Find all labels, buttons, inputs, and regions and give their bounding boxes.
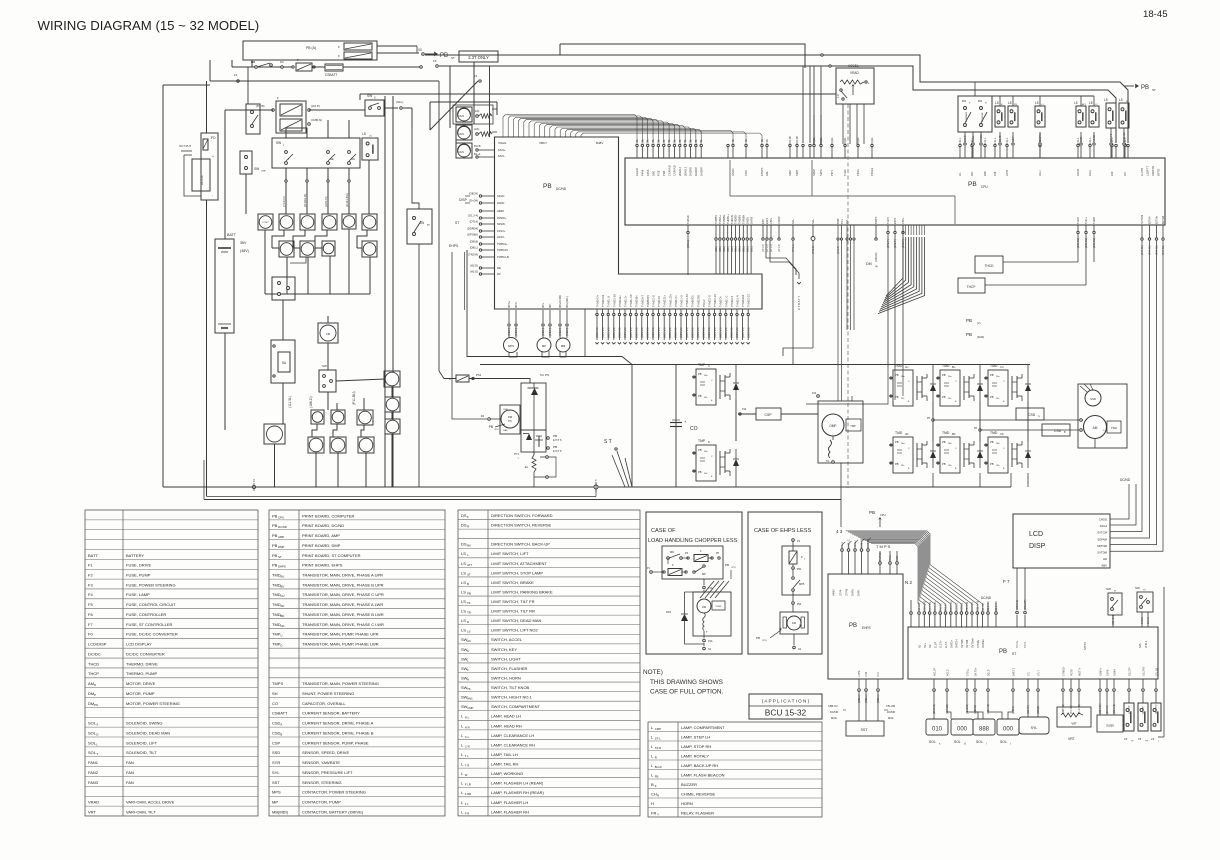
wire disp feeds — [465, 195, 470, 197]
svg-text:1311.Q2: 1311.Q2 — [1122, 132, 1126, 142]
svg-text:DS: DS — [461, 542, 467, 547]
svg-text:DC/DC CONVERTER: DC/DC CONVERTER — [126, 651, 165, 656]
svg-text:(O1D.V1): (O1D.V1) — [680, 327, 683, 338]
svg-text:F: F — [338, 54, 340, 58]
svg-text:PB: PB — [942, 373, 946, 377]
svg-text:TRANSISTOR, MAIN, PUMP, PHASE: TRANSISTOR, MAIN, PUMP, PHASE UPR — [302, 632, 379, 637]
current sensor CSD B — [1042, 424, 1070, 436]
wire ls extra drop — [1110, 128, 1112, 132]
svg-text:F: F — [801, 555, 803, 559]
svg-text:(198.8M): (198.8M) — [875, 252, 878, 262]
2.3T ONLY box — [459, 51, 498, 62]
svg-text:5A.T5+: 5A.T5+ — [975, 667, 978, 676]
svg-text:(DTL4): (DTL4) — [470, 220, 478, 224]
svg-text:PY1: PY1 — [514, 453, 519, 456]
svg-text:DHDF8: DHDF8 — [689, 167, 693, 176]
svg-text:AC: AC — [467, 639, 471, 643]
cpu top pin stubs group C — [789, 147, 791, 158]
svg-text:SENSOR, PRESSURE LIFT: SENSOR, PRESSURE LIFT — [302, 770, 353, 775]
svg-text:THERMO, PUMP: THERMO, PUMP — [126, 671, 157, 676]
svg-text:TMDA+: TMDA+ — [718, 215, 722, 224]
svg-text:(1T1.P): (1T1.P) — [886, 239, 890, 248]
svg-text:Y: Y — [657, 812, 659, 816]
svg-text:131.L: 131.L — [1088, 137, 1092, 144]
svg-text:LAMP, FLASH BEACON: LAMP, FLASH BEACON — [681, 772, 725, 777]
svg-text:(O8L): (O8L) — [739, 246, 742, 252]
svg-text:LIMIT SWITCH, ATTACHMENT: LIMIT SWITCH, ATTACHMENT — [491, 561, 547, 566]
svg-text:(111.5L): (111.5L) — [288, 396, 292, 408]
svg-text:H L: H L — [465, 716, 470, 720]
svg-text:L9L.I: L9L.I — [1038, 170, 1042, 176]
yaw sensor SYR — [1097, 715, 1123, 732]
svg-text:TR: TR — [1145, 741, 1148, 743]
svg-text:DC/ND: DC/ND — [278, 525, 287, 529]
wire phase B — [979, 365, 981, 375]
svg-text:(O1D.V1): (O1D.V1) — [725, 327, 728, 338]
svg-text:F: F — [467, 515, 469, 519]
svg-text:MOTOR, POWER STEERING: MOTOR, POWER STEERING — [126, 701, 180, 706]
svg-text:BATT: BATT — [88, 553, 98, 558]
svg-text:THIS DRAWING SHOWS: THIS DRAWING SHOWS — [650, 679, 723, 686]
fan FAN2 — [456, 125, 472, 140]
svg-text:EHPS: EHPS — [449, 244, 459, 248]
svg-text:TMMB8P1: TMMB8P1 — [647, 295, 650, 307]
svg-text:PRINT BOARD, AMP: PRINT BOARD, AMP — [302, 533, 340, 538]
svg-text:PB: PB — [990, 462, 994, 466]
current sensor CSD A — [1016, 408, 1044, 420]
svg-text:FAN: FAN — [126, 760, 134, 765]
svg-text:DH-: DH- — [704, 473, 708, 475]
svg-text:CMD: CMD — [503, 409, 508, 411]
svg-text:SW: SW — [1106, 587, 1111, 591]
wire pins amp — [846, 225, 848, 238]
svg-text:DC/ND: DC/ND — [830, 710, 838, 714]
svg-text:L5: L5 — [1151, 737, 1155, 741]
svg-text:SOLENOID, SWING: SOLENOID, SWING — [126, 721, 162, 726]
wire ehps pin risers — [842, 542, 845, 549]
vari-ohm VRT — [1057, 707, 1091, 727]
svg-text:FORWARD: FORWARD — [965, 111, 968, 122]
svg-text:LS: LS — [461, 580, 466, 585]
svg-text:S1L2FF: S1L2FF — [1129, 667, 1132, 676]
svg-text:DF8.Q1: DF8.Q1 — [971, 602, 974, 611]
svg-text:BMP: BMP — [836, 218, 840, 224]
svg-text:SV-: SV- — [929, 644, 932, 648]
svg-text:AGL2P: AGL2P — [934, 668, 937, 676]
svg-text:36V: 36V — [240, 241, 247, 245]
svg-text:THMDCD4: THMDCD4 — [602, 294, 605, 307]
svg-text:P1A: P1A — [708, 640, 713, 643]
fuse F8 ps — [456, 375, 469, 382]
svg-text:THCP: THCP — [1076, 217, 1080, 224]
svg-text:V4MY: V4MY — [833, 589, 836, 596]
svg-text:ST: ST — [455, 221, 459, 225]
svg-text:B: B — [280, 732, 282, 736]
svg-text:(P11.BU): (P11.BU) — [352, 391, 356, 405]
svg-text:H1SV-: H1SV- — [497, 235, 505, 239]
legend table 4 application lamps — [648, 722, 822, 817]
cpu top pins group E to switches — [959, 147, 961, 158]
print board PB DC/ND — [495, 137, 763, 309]
svg-text:TMD: TMD — [990, 431, 998, 435]
svg-text:SDTNM: SDTNM — [1097, 544, 1108, 548]
svg-text:R: R — [657, 793, 659, 797]
svg-text:LS: LS — [461, 570, 466, 575]
svg-text:DIRECTION SWITCH, REVERSE: DIRECTION SWITCH, REVERSE — [491, 523, 552, 528]
svg-text:TMP: TMP — [698, 363, 706, 367]
svg-text:MGT7+: MGT7+ — [1079, 667, 1082, 676]
svg-text:LIMIT SWITCH, TILT RR: LIMIT SWITCH, TILT RR — [491, 609, 535, 614]
svg-text:D99: D99 — [983, 171, 987, 176]
horn H — [264, 424, 285, 444]
svg-text:CASE OF EHPS LESS: CASE OF EHPS LESS — [754, 528, 811, 534]
svg-text:BU: BU — [467, 544, 471, 548]
svg-text:L9AT1: L9AT1 — [1076, 168, 1080, 176]
svg-text:E5P: E5P — [761, 219, 765, 224]
svg-text:(O1D.V1): (O1D.V1) — [596, 327, 599, 338]
svg-text:FAN+: FAN+ — [498, 148, 506, 152]
svg-text:SVTMB: SVTMB — [961, 639, 964, 648]
svg-text:F1: F1 — [474, 74, 478, 78]
application box BCU 15-32 — [749, 694, 822, 719]
svg-text:ST: ST — [451, 56, 455, 60]
svg-text:LAMP, FLASHER RH (REAR): LAMP, FLASHER RH (REAR) — [491, 790, 544, 795]
svg-text:5A.LN: 5A.LN — [1147, 617, 1150, 624]
svg-text:M32+: M32+ — [831, 716, 838, 720]
svg-text:(O1D.V1): (O1D.V1) — [708, 327, 711, 338]
svg-text:LS: LS — [461, 628, 466, 633]
svg-text:LS: LS — [461, 618, 466, 623]
limit switch LS L bottom — [1151, 703, 1161, 731]
svg-text:L2DFTT: L2DFTT — [1146, 166, 1150, 176]
svg-text:BU: BU — [280, 584, 284, 588]
pump motor DM S chopper — [693, 592, 731, 636]
svg-text:N2L: N2L — [811, 219, 815, 224]
svg-text:(P41.L): (P41.L) — [792, 244, 795, 252]
svg-text:PB: PB — [698, 470, 702, 474]
svg-text:C5B.CN: C5B.CN — [828, 704, 838, 708]
svg-text:C5P+: C5P+ — [769, 217, 773, 224]
svg-text:P1: P1 — [797, 539, 801, 543]
wire am bottom — [1094, 438, 1096, 448]
svg-text:ST: ST — [467, 572, 471, 576]
speed sensor SSD and drive motor AM D — [1078, 384, 1127, 448]
svg-text:C'D9: C'D9 — [744, 170, 748, 176]
svg-text:(11.5-Y1): (11.5-Y1) — [995, 601, 998, 611]
svg-text:L9-: L9- — [958, 172, 962, 176]
svg-text:E H P S: E H P S — [553, 439, 562, 442]
svg-text:EMR+: EMR+ — [852, 588, 855, 596]
svg-text:PS1: PS1 — [476, 373, 482, 377]
contactor MPS ehps less — [792, 577, 795, 580]
svg-text:(181.L): (181.L) — [686, 240, 690, 248]
svg-text:D: D — [280, 644, 282, 648]
svg-text:44.311: 44.311 — [979, 134, 983, 142]
lamp L HL — [279, 214, 294, 230]
svg-text:F1: F1 — [234, 73, 238, 77]
svg-text:(Y1K.D): (Y1K.D) — [282, 196, 286, 207]
svg-text:ACCEL: ACCEL — [848, 64, 859, 68]
svg-text:(D+D4): (D+D4) — [469, 199, 478, 203]
svg-text:AMP: AMP — [278, 535, 284, 539]
svg-text:D2SW+: D2SW+ — [497, 216, 507, 220]
svg-text:F4N5: F4N5 — [646, 169, 650, 176]
limit switch LS AT1 — [1076, 106, 1086, 127]
limit switch LS PB — [1008, 106, 1018, 127]
svg-text:CHIME, REVERSE: CHIME, REVERSE — [681, 791, 716, 796]
svg-text:PB: PB — [272, 523, 278, 528]
svg-text:DH-: DH- — [996, 465, 1000, 467]
svg-text:P14: P14 — [812, 392, 817, 395]
svg-text:(H2.D): (H2.D) — [470, 264, 478, 268]
limit switch LS LI — [1035, 106, 1045, 127]
svg-text:N 2: N 2 — [905, 580, 913, 585]
svg-text:SMT2+: SMT2+ — [950, 639, 953, 648]
svg-text:O8L: O8L — [640, 139, 644, 144]
svg-text:ST: ST — [1012, 652, 1016, 656]
svg-text:SH: SH — [272, 691, 278, 696]
svg-text:THMDD-2D: THMDD-2D — [748, 294, 751, 307]
svg-text:MOTOR, PUMP: MOTOR, PUMP — [126, 691, 155, 696]
svg-text:(1T1.P): (1T1.P) — [893, 239, 897, 248]
svg-text:FAN: FAN — [458, 150, 464, 154]
wire relay box outputs — [377, 45, 417, 47]
svg-text:(48V): (48V) — [240, 249, 249, 253]
svg-text:(O1D.V1): (O1D.V1) — [635, 327, 638, 338]
svg-text:ST-R: ST-R — [655, 746, 661, 750]
terminal S — [594, 485, 598, 489]
svg-text:NOTE): NOTE) — [643, 669, 663, 676]
svg-text:MP+: MP+ — [541, 302, 545, 308]
svg-text:PB (A): PB (A) — [306, 46, 316, 50]
cpu top pin F4D right — [727, 147, 729, 158]
svg-text:SYR: SYR — [1106, 724, 1114, 728]
svg-text:DISP: DISP — [459, 198, 468, 202]
svg-text:TMD: TMD — [942, 364, 950, 368]
svg-text:TMNBH: TMNBH — [742, 215, 746, 224]
svg-text:(O1D.V1): (O1D.V1) — [663, 327, 666, 338]
svg-text:L1TM: L1TM — [858, 671, 861, 677]
svg-text:THMDA1+: THMDA1+ — [619, 295, 622, 307]
svg-text:(D8L8): (D8L8) — [470, 240, 478, 244]
svg-text:LS: LS — [461, 551, 466, 556]
wire LS bottoms to cpu — [964, 132, 966, 142]
wire sol feeds — [933, 702, 935, 719]
wire LS tops — [999, 96, 1001, 106]
svg-text:5A8: 5A8 — [1139, 643, 1142, 648]
legend table 3 switches lamps — [458, 510, 640, 816]
svg-text:FAN: FAN — [458, 114, 464, 118]
svg-text:C18AT: C18AT — [777, 216, 781, 224]
svg-text:(O1D.V1): (O1D.V1) — [658, 327, 661, 338]
svg-text:DH-: DH- — [704, 397, 708, 399]
svg-text:EL5P: EL5P — [934, 642, 937, 648]
svg-text:THMDAU+: THMDAU+ — [597, 294, 600, 307]
svg-text:BATT: BATT — [227, 233, 237, 237]
svg-text:1311: 1311 — [1079, 136, 1083, 142]
lamp col right L H L B CH — [384, 371, 400, 387]
svg-text:LS: LS — [461, 561, 466, 566]
svg-text:P51: P51 — [797, 568, 802, 571]
svg-text:(H81.D): (H81.D) — [324, 196, 328, 207]
svg-text:V8T: V8T — [1071, 722, 1077, 726]
svg-text:LCMP: LCMP — [262, 222, 269, 224]
svg-text:D: D — [94, 683, 96, 687]
battery BATT 36V — [215, 239, 234, 333]
svg-text:MP-: MP- — [548, 303, 552, 308]
svg-text:THMDC4: THMDC4 — [720, 296, 723, 307]
svg-text:8V1.8: 8V1.8 — [945, 604, 948, 611]
svg-text:BD: BD — [280, 614, 284, 618]
wire bottom rail 2 — [207, 496, 596, 498]
svg-text:(DDRD4): (DDRD4) — [467, 227, 478, 231]
limit switch LS B — [995, 106, 1005, 127]
svg-text:AU: AU — [280, 574, 284, 578]
svg-text:WIRING DIAGRAM (15 ~ 32 MODEL): WIRING DIAGRAM (15 ~ 32 MODEL) — [38, 18, 260, 33]
svg-text:DISP: DISP — [1029, 543, 1046, 550]
svg-text:CSBATT: CSBATT — [272, 711, 288, 716]
svg-text:S: S — [96, 723, 98, 727]
svg-text:SW: SW — [276, 141, 281, 145]
thermistor THCP box — [958, 278, 985, 293]
svg-text:THDBD-: THDBD- — [734, 214, 738, 224]
svg-text:L5: L5 — [1124, 737, 1128, 741]
svg-text:FAN1: FAN1 — [88, 760, 99, 765]
svg-text:TMP: TMP — [698, 439, 706, 443]
svg-text:PB: PB — [272, 513, 278, 518]
svg-text:THCD: THCD — [985, 264, 995, 268]
svg-text:LCD/DISP: LCD/DISP — [88, 642, 107, 647]
svg-text:THCP: THCP — [88, 671, 99, 676]
wire st top bundle — [871, 544, 919, 612]
svg-text:LIMIT SWITCH, LIFT NO2: LIMIT SWITCH, LIFT NO2 — [491, 628, 539, 633]
svg-text:L5: L5 — [1074, 101, 1078, 105]
svg-text:VARI-OHM, ACCEL DRIVE: VARI-OHM, ACCEL DRIVE — [126, 800, 175, 805]
svg-text:TMDBN: TMDBN — [738, 215, 742, 224]
svg-text:CU: CU — [1000, 366, 1004, 369]
svg-text:VARI-OHM, TILT: VARI-OHM, TILT — [126, 809, 156, 814]
svg-text:PB: PB — [849, 623, 857, 629]
svg-text:SVTCM: SVTCM — [1097, 531, 1107, 535]
svg-text:THDBL+: THDBL+ — [726, 213, 730, 224]
svg-text:BL+1: BL+1 — [474, 152, 481, 156]
svg-text:(O31.L2): (O31.L2) — [1015, 600, 1019, 610]
svg-text:THERMO, DRIVE: THERMO, DRIVE — [126, 661, 158, 666]
case box load handling chopper less — [646, 512, 742, 654]
wire 2.3T drop — [473, 62, 475, 107]
wire swk feed — [247, 67, 249, 104]
limit switch LS TF bottom — [1124, 703, 1134, 731]
wire phase C — [1027, 365, 1029, 375]
svg-text:DIRECTION SWITCH, BACK-UP: DIRECTION SWITCH, BACK-UP — [491, 542, 550, 547]
fuse block F3 double — [276, 101, 306, 133]
cpu bottom pins mid cluster — [887, 225, 889, 231]
wire keyline up to relay box — [251, 60, 253, 67]
svg-text:F2: F2 — [88, 572, 93, 577]
svg-text:DC/DC: DC/DC — [88, 651, 101, 656]
svg-text:DIRECTION SWITCH, FORWARD: DIRECTION SWITCH, FORWARD — [491, 513, 553, 518]
svg-text:L5: L5 — [1008, 101, 1012, 105]
svg-text:SOLENOID, DEAD MAN: SOLENOID, DEAD MAN — [126, 730, 170, 735]
svg-text:SENSOR, STEERING: SENSOR, STEERING — [302, 780, 342, 785]
svg-text:O8L: O8L — [646, 139, 650, 144]
svg-text:F4N4: F4N4 — [641, 169, 645, 176]
svg-text:(O1D.V1): (O1D.V1) — [731, 327, 734, 338]
svg-text:SOLENOID, TILT: SOLENOID, TILT — [126, 750, 157, 755]
svg-text:K1SV+: K1SV+ — [497, 229, 506, 233]
svg-text:(O1D.V1): (O1D.V1) — [747, 327, 750, 338]
contactor MPS — [504, 338, 519, 353]
svg-text:DM: DM — [792, 622, 796, 625]
svg-text:F3: F3 — [88, 582, 93, 587]
svg-text:ABV: ABV — [1101, 564, 1107, 568]
svg-text:PB: PB — [990, 440, 994, 444]
svg-text:BU: BU — [427, 225, 430, 227]
svg-text:EHPS: EHPS — [862, 626, 871, 630]
wing pins down with arrows — [596, 309, 598, 313]
svg-text:CURRENT SENSOR, DRIVE, PHASE B: CURRENT SENSOR, DRIVE, PHASE B — [302, 730, 374, 735]
svg-text:HB48: HB48 — [497, 209, 504, 213]
svg-text:D: D — [96, 732, 98, 736]
svg-text:(2A): (2A) — [474, 127, 479, 131]
svg-text:SWITCH, HORN: SWITCH, HORN — [491, 675, 521, 680]
svg-text:(O1D.V1): (O1D.V1) — [607, 327, 610, 338]
svg-text:BD: BD — [952, 433, 956, 436]
svg-text:SHUNT, POWER STEERING: SHUNT, POWER STEERING — [302, 691, 354, 696]
svg-text:TMP: TMP — [850, 424, 856, 428]
svg-text:THMDU-5D: THMDU-5D — [686, 294, 689, 307]
svg-text:L9L2: L9L2 — [1088, 170, 1092, 176]
svg-text:PB: PB — [999, 649, 1007, 655]
svg-text:U: U — [280, 634, 282, 638]
svg-text:(O8L): (O8L) — [743, 246, 746, 252]
svg-text:(11.5-Y1): (11.5-Y1) — [987, 601, 990, 611]
svg-text:2.3T ONLY: 2.3T ONLY — [468, 55, 489, 60]
svg-text:A: A — [280, 723, 282, 727]
svg-text:CMP: CMP — [261, 171, 266, 173]
svg-text:D37: D37 — [970, 171, 974, 176]
svg-text:D1DD: D1DD — [497, 201, 504, 205]
svg-text:THMDD-G: THMDD-G — [653, 295, 656, 307]
svg-text:(DHS): (DHS) — [977, 335, 984, 339]
svg-text:BCU 15-32: BCU 15-32 — [765, 708, 807, 718]
svg-text:O81.5L1: O81.5L1 — [950, 601, 953, 611]
svg-text:TWD: TWD — [1111, 426, 1117, 430]
svg-text:DH-: DH- — [996, 398, 1000, 400]
svg-text:SVTOM: SVTOM — [1140, 215, 1144, 224]
svg-text:SENSOR, YAWRATE: SENSOR, YAWRATE — [302, 760, 340, 765]
svg-text:T4D: T4D — [760, 139, 764, 144]
wire top rail y55 stepping down to PB ST arrow — [425, 55, 1128, 143]
svg-text:(O2.NY1): (O2.NY1) — [1112, 614, 1115, 625]
svg-text:62TNb: 62TNb — [1155, 216, 1159, 224]
wire vsag feed — [489, 66, 491, 137]
svg-text:U: U — [708, 365, 710, 368]
svg-text:(O8L): (O8L) — [715, 246, 718, 252]
svg-text:PB: PB — [272, 553, 278, 558]
fan outer box — [453, 105, 493, 124]
svg-text:PB: PB — [966, 318, 972, 323]
svg-text:PB: PB — [942, 462, 946, 466]
wire main left verticals — [206, 81, 208, 133]
svg-text:HE: HE — [330, 157, 334, 161]
svg-text:F RR: F RR — [465, 792, 472, 796]
wire accel top link — [560, 44, 805, 68]
svg-text:M8+DCMD: M8+DCMD — [558, 295, 562, 308]
svg-text:LAMP, WORKING: LAMP, WORKING — [491, 771, 523, 776]
svg-text:AD: AD — [280, 604, 284, 608]
svg-text:O26.Q41: O26.Q41 — [924, 600, 927, 611]
